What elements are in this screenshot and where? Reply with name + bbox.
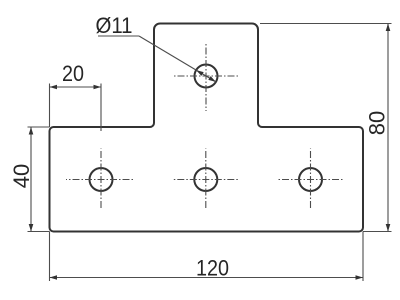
hole H1 (left) xyxy=(90,168,113,191)
svg-text:Ø11: Ø11 xyxy=(96,13,133,38)
dim 80: dimension line xyxy=(387,24,389,232)
dim 20: arrow right xyxy=(94,85,102,90)
dim 40: arrow bottom xyxy=(29,224,34,232)
dim 80: arrow top xyxy=(386,24,391,32)
dim 80: extension line top xyxy=(260,23,392,25)
centerline H4 vertical xyxy=(205,44,207,111)
dim 20: extension line left xyxy=(49,84,51,128)
svg-text:80: 80 xyxy=(365,111,390,135)
dim 40: dimension line xyxy=(30,127,32,232)
dim 80: arrow bottom xyxy=(386,224,391,232)
centerline H4 horizontal xyxy=(173,75,239,77)
dim 20: dimension line xyxy=(50,86,102,88)
dim 120: dimension line xyxy=(50,277,364,279)
centerline H1 vertical xyxy=(100,149,102,211)
label Ø11 arrow lower-right xyxy=(208,76,216,82)
centerline H3 vertical xyxy=(310,149,312,211)
dim 20: extension line right xyxy=(100,84,102,132)
centerline H3 horizontal xyxy=(277,179,343,181)
centerline H1 horizontal xyxy=(66,179,134,181)
dim 120: arrow right xyxy=(356,275,364,280)
dim 40: extension line bottom xyxy=(28,231,50,233)
svg-text:40: 40 xyxy=(9,164,34,188)
hole H2 (middle) xyxy=(194,168,217,191)
dim 120: extension line right xyxy=(362,232,364,282)
svg-text:120: 120 xyxy=(196,256,229,281)
hole H4 (top tab) xyxy=(195,65,218,88)
label Ø11 underline xyxy=(98,35,139,37)
dim 120: arrow left xyxy=(50,275,58,280)
dim 20: arrow left xyxy=(50,85,58,90)
svg-text:20: 20 xyxy=(62,61,84,86)
centerline H2 horizontal xyxy=(172,179,239,181)
centerline H2 vertical xyxy=(205,149,207,211)
dim 120: extension line left xyxy=(49,232,51,282)
dim 80: extension line bottom xyxy=(363,231,392,233)
label Ø11 arrow upper-left xyxy=(196,70,204,76)
dim 40: extension line top xyxy=(28,126,50,128)
dim 40: arrow top xyxy=(29,127,34,135)
label Ø11 leader line xyxy=(139,36,216,82)
hole H3 (right) xyxy=(299,168,322,191)
plate outline xyxy=(50,24,364,232)
